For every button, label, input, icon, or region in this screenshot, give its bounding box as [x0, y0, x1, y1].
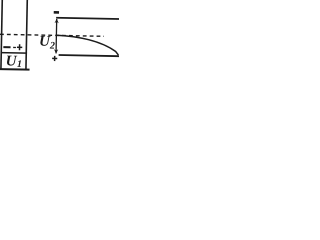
svg-text:2: 2 — [49, 40, 55, 51]
beam axis dashed line — [0, 34, 104, 36]
polarity plus (bottom plate) — [52, 56, 57, 61]
polarity minus (top plate) — [54, 11, 59, 14]
voltage arrow U2 upper arrowhead — [55, 19, 59, 24]
electron trajectory curve — [56, 35, 118, 55]
battery box U1 top edge — [1, 52, 27, 55]
label U1 — [6, 53, 23, 70]
polarity minus (left plate) — [3, 46, 10, 48]
stray dash between polarity signs — [13, 46, 16, 48]
plate (right anode) — [26, 0, 27, 69]
deflecting plate bottom — [59, 55, 119, 56]
voltage arrow U2 double-headed shaft — [55, 19, 58, 53]
label U2 — [39, 34, 55, 52]
deflecting plate top — [56, 18, 120, 19]
battery box U1 bottom edge — [0, 68, 30, 71]
voltage arrow U2 lower arrowhead — [54, 49, 58, 54]
svg-text:1: 1 — [17, 59, 22, 70]
plate (left cathode) — [1, 0, 2, 69]
polarity plus (right plate) — [17, 44, 22, 50]
